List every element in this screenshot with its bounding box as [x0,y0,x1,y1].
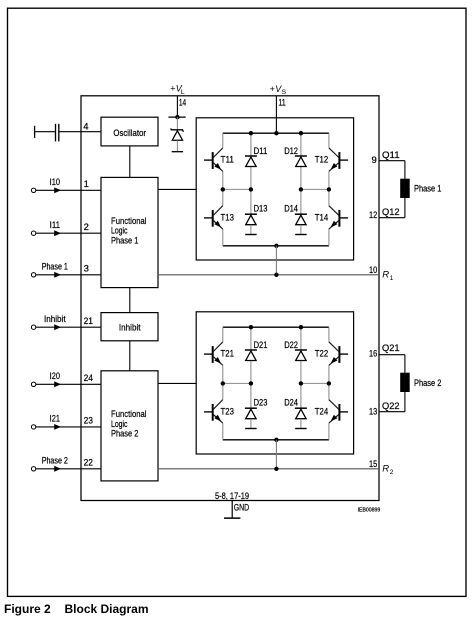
wire D12 cathode lead [300,133,302,156]
wire D14 cathode lead [300,189,302,214]
svg-text:24: 24 [84,373,93,384]
transistor T21 [204,342,223,365]
svg-text:I11: I11 [50,220,60,231]
diode D11 [245,156,257,167]
wire T12 emitter [328,171,330,189]
svg-text:T24: T24 [315,407,328,418]
node R1 junction [274,273,278,277]
wire logic 2 output to bridge 2 [158,382,196,384]
svg-text:3: 3 [84,263,89,274]
svg-text:Phase 2: Phase 2 [414,378,441,389]
wire logic 1 output to bridge 1 [158,188,196,190]
node D12 top junction [299,131,303,135]
svg-text:I10: I10 [50,177,60,188]
wire D23 cathode lead [250,383,252,408]
svg-text:T11: T11 [221,155,234,166]
bridge output stage box phase 2 [196,312,353,454]
wire right mid rail phase 1 [301,188,329,190]
svg-text:T22: T22 [315,349,328,360]
node pin 14 junction [168,115,185,119]
svg-text:Phase 1: Phase 1 [111,235,138,246]
input terminal I10 (pin 1) [31,187,101,193]
svg-text:D24: D24 [284,398,298,409]
wire logic 1 to inhibit [129,288,131,313]
wire T11 emitter [222,171,224,189]
svg-text:T14: T14 [315,213,328,224]
wire D24 cathode lead [300,383,302,408]
node D11 top junction [249,131,253,135]
svg-text:+: + [270,84,275,94]
wire load phase 1 to pin 12 [379,198,405,218]
svg-text:+: + [170,84,175,94]
input terminal I21 (pin 23) [31,424,101,430]
load resistor Phase 2 [401,373,410,391]
svg-text:D22: D22 [284,340,298,351]
wire left mid rail phase 1 [223,188,251,190]
svg-text:I20: I20 [50,371,60,382]
node D21 top junction [249,325,253,329]
wire T22 collector [328,327,330,342]
bridge output stage box phase 1 [196,118,353,260]
node V rail junction phase 1 [274,131,278,135]
svg-text:11: 11 [278,97,285,108]
svg-text:9: 9 [372,155,377,166]
wire inhibit to logic 2 [129,341,131,371]
svg-text:16: 16 [369,348,377,359]
svg-text:D23: D23 [254,398,268,409]
wire right mid rail phase 2 [301,382,329,384]
label R1 [382,269,393,282]
svg-text:Oscillator: Oscillator [113,128,146,139]
svg-text:R: R [382,463,389,474]
svg-text:23: 23 [84,416,93,427]
node T22 emitter junction [327,381,331,385]
capacitor terminal tick [34,126,36,138]
wire top rail phase 1 [223,132,329,134]
wire capacitor left lead [35,131,55,133]
wire pin 16 to load phase 2 [379,355,405,374]
svg-text:Phase 1: Phase 1 [42,262,68,273]
wire bottom rail phase 2 [223,439,329,441]
wire T21 collector [222,327,224,342]
svg-text:15: 15 [369,459,377,470]
transistor T14 [329,206,348,229]
inhibit block [101,313,158,341]
caption Figure 2 Block Diagram [4,602,51,616]
wire oscillator to logic 1 [129,146,131,178]
wire T14 emitter [328,229,330,246]
zener diode Z1 [171,117,184,152]
label Functional Logic Phase 1 [111,216,147,247]
wire D13 cathode lead [250,189,252,214]
svg-text:T12: T12 [315,155,328,166]
wire T22 emitter [328,365,330,383]
svg-text:D14: D14 [284,204,298,215]
pin 14 stub wire [176,96,178,117]
svg-text:GND: GND [234,502,249,513]
node bottom rail junction phase 1 [274,244,278,248]
svg-text:Phase 2: Phase 2 [42,456,68,467]
svg-text:1: 1 [390,275,394,282]
transistor T23 [204,400,223,423]
svg-text:D21: D21 [254,340,268,351]
svg-text:T13: T13 [221,213,234,224]
node R2 junction [274,467,278,471]
label +VS supply [270,84,287,96]
IC outer boundary box [81,96,379,501]
input terminal Phase 1 (pin 3) [31,272,101,278]
svg-text:T21: T21 [221,349,234,360]
node T12 emitter junction [327,187,331,191]
wire T13 emitter [222,229,224,246]
svg-text:12: 12 [369,210,377,221]
svg-text:10: 10 [369,265,377,276]
node D22 anode junction [299,381,303,385]
label +VL supply [170,84,185,96]
wire bridge 1 to R1 rail [275,246,277,275]
oscillator block [101,117,158,146]
wire D11 cathode lead [250,133,252,156]
node D11 anode junction [249,187,253,191]
svg-text:Phase 1: Phase 1 [414,184,441,195]
wire T13 collector [222,189,224,205]
svg-text:D12: D12 [284,146,298,157]
wire left mid rail phase 2 [223,382,251,384]
transistor T22 [329,342,348,365]
wire T14 collector [328,189,330,205]
diode D24 [295,408,307,428]
svg-text:Inhibit: Inhibit [119,322,141,333]
svg-text:Q21: Q21 [382,343,400,354]
wire T21 emitter [222,365,224,383]
wire D11 anode lead [250,167,252,190]
diode D14 [295,214,307,234]
wire T24 emitter [328,423,330,440]
svg-text:IEB00899: IEB00899 [358,508,381,514]
label R2 [382,463,393,476]
wire T23 collector [222,383,224,399]
svg-text:Phase 2: Phase 2 [111,429,138,440]
wire bottom rail phase 1 [223,245,329,247]
transistor T11 [204,148,223,171]
node D22 top junction [299,325,303,329]
wire T12 collector [328,133,330,148]
input terminal I11 (pin 2) [31,230,101,236]
transistor T12 [329,148,348,171]
diode D22 [295,350,307,361]
node T21 emitter junction [221,381,225,385]
pin 11 stub wire [275,96,277,133]
svg-text:T23: T23 [221,407,234,418]
svg-text:1: 1 [84,179,89,190]
wire bridge 2 to R2 rail [275,440,277,469]
functional logic phase 1 block [101,177,158,287]
svg-text:I21: I21 [50,414,60,425]
diode D23 [245,408,257,428]
svg-text:Q12: Q12 [382,207,400,218]
svg-text:Inhibit: Inhibit [44,314,66,325]
wire T24 collector [328,383,330,399]
wire pin 9 to load phase 1 [379,161,405,180]
svg-text:D11: D11 [254,146,268,157]
svg-text:Q22: Q22 [382,401,400,412]
wire D21 cathode lead [250,327,252,350]
input terminal Phase 2 (pin 22) [31,466,101,472]
wire load phase 2 to pin 13 [379,392,405,412]
input terminal I20 (pin 24) [31,381,101,387]
ground [224,501,240,519]
svg-text:14: 14 [179,97,186,108]
node D12 anode junction [299,187,303,191]
node D21 anode junction [249,381,253,385]
wire T23 emitter [222,423,224,440]
wire D22 cathode lead [300,327,302,350]
wire D21 anode lead [250,361,252,384]
svg-text:S: S [282,89,287,96]
svg-text:13: 13 [369,407,377,418]
svg-text:2: 2 [84,222,89,233]
transistor T24 [329,400,348,423]
transistor T13 [204,206,223,229]
load resistor Phase 1 [401,179,410,197]
diode D21 [245,350,257,361]
svg-text:21: 21 [84,316,93,327]
svg-text:Q11: Q11 [382,150,400,161]
capacitor C1 plates [56,124,59,142]
wire top rail phase 2 [223,326,329,328]
input terminal Inhibit (pin 21) [31,324,101,330]
svg-text:22: 22 [84,457,93,468]
wire D12 anode lead [300,167,302,190]
wire R1 sense rail (pin 10) [158,274,379,276]
wire T11 collector [222,133,224,148]
wire D22 anode lead [300,361,302,384]
svg-text:L: L [181,89,185,96]
functional logic phase 2 block [101,371,158,481]
wire R2 sense rail (pin 15) [158,468,379,470]
diode D12 [295,156,307,167]
label Functional Logic Phase 2 [111,409,147,440]
svg-text:4: 4 [83,122,88,133]
wire capacitor to oscillator pin 4 [60,131,102,133]
svg-text:D13: D13 [254,204,268,215]
diode D13 [245,214,257,234]
node bottom rail junction phase 2 [274,438,278,442]
svg-text:R: R [382,269,389,280]
svg-text:2: 2 [390,469,394,476]
node T11 emitter junction [221,187,225,191]
